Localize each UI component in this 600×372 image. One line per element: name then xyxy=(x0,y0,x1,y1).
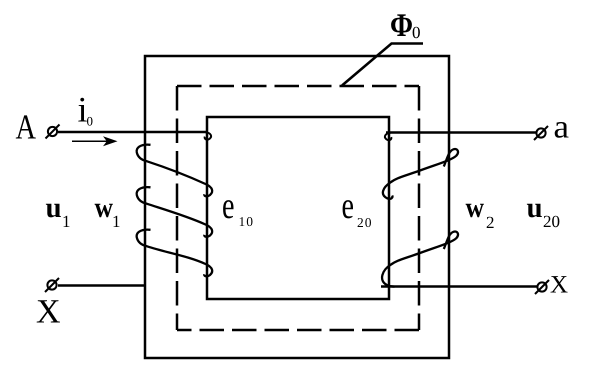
terminal A symbol xyxy=(46,125,60,139)
label w2 sub xyxy=(487,217,494,228)
label e10 e xyxy=(223,200,233,218)
terminal x symbol xyxy=(535,280,549,294)
label a xyxy=(555,122,569,138)
secondary winding W2 turn 1 xyxy=(383,149,458,199)
wire x from secondary xyxy=(381,285,537,288)
primary winding W1 turn 2 xyxy=(137,187,213,237)
label w1 w xyxy=(95,204,113,218)
wire hook at top of secondary winding xyxy=(385,133,391,140)
terminal a symbol xyxy=(534,126,548,140)
label Phi sub xyxy=(413,27,420,39)
label Phi xyxy=(391,14,412,36)
terminal X symbol xyxy=(45,278,59,292)
core window inner rectangle xyxy=(207,117,389,299)
label A xyxy=(16,115,36,138)
label e20 sub xyxy=(358,218,371,227)
label u1 u xyxy=(46,204,61,218)
flux path dashed rectangle xyxy=(177,86,419,330)
label X xyxy=(37,300,60,322)
wire A to core xyxy=(58,131,207,134)
outer core rectangle xyxy=(145,56,449,358)
label x xyxy=(551,276,568,292)
label e20 e xyxy=(343,200,353,218)
secondary winding W2 turn 2 xyxy=(382,232,458,287)
primary winding W1 turn 3 xyxy=(137,230,213,277)
flux label leader line xyxy=(342,44,423,86)
label i0 i xyxy=(78,98,87,122)
current arrow i0 xyxy=(72,136,118,146)
wire a from secondary xyxy=(386,131,536,134)
label w2 w xyxy=(466,204,484,218)
label e10 sub xyxy=(240,217,253,226)
label u1 sub xyxy=(64,216,70,227)
label w1 sub xyxy=(114,216,120,227)
label u20 sub xyxy=(544,216,560,228)
wire hook at top of primary winding xyxy=(205,132,211,139)
label u20 u xyxy=(527,204,542,218)
label i0 sub xyxy=(87,117,93,126)
primary winding W1 turn 1 xyxy=(137,145,213,197)
wire X to core xyxy=(58,284,146,287)
